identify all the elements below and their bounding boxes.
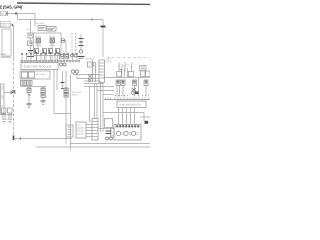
ignition wire — [10, 24, 14, 26]
mid bottom small connector — [66, 125, 73, 137]
wire A (battery feed) — [9, 13, 36, 15]
fuse F1 label — [0, 11, 8, 15]
junction tick x92 on wire B — [91, 19, 93, 21]
left attach box — [111, 128, 115, 136]
svg-text:IND LAMP: IND LAMP — [36, 73, 46, 76]
wire bus under indicators — [21, 86, 47, 88]
lower module box — [20, 71, 50, 79]
vertical to ECU — [89, 87, 91, 123]
bottom-left junction cluster — [1, 84, 5, 114]
long wire y77.5 to right edge — [103, 77, 150, 79]
tick on ignition wire — [11, 24, 13, 26]
connector circle pair 2 — [71, 70, 74, 73]
svg-text:NORMAL: NORMAL — [86, 58, 95, 61]
fusible link blob — [101, 26, 106, 28]
pin wires from ECU — [86, 125, 92, 137]
connector C9 (tall) — [99, 60, 105, 83]
junction tick bottom — [13, 136, 15, 141]
bottom long wires — [71, 143, 151, 145]
wire drop from A to B — [17, 14, 19, 20]
svg-text:SWITCH: SWITCH — [1, 25, 10, 28]
wire down to connector — [65, 41, 67, 55]
wire y128.5 — [98, 128, 114, 130]
wire corner mid-bottom — [54, 113, 71, 115]
harness dashed wire (left vertical) — [13, 58, 15, 138]
indicator connector boxes — [21, 81, 27, 86]
svg-text:No.4: No.4 — [1, 13, 6, 16]
drops below wire — [119, 113, 135, 125]
ground G2 — [41, 100, 46, 102]
noise capacitor chain — [80, 34, 82, 50]
wire corner x103 with fusible link — [102, 20, 104, 58]
wire vertical x54 — [53, 70, 55, 114]
ignition switch body box — [2, 29, 11, 56]
switch glyph row above controller — [21, 54, 77, 61]
svg-text:WHT/BLK: WHT/BLK — [36, 22, 46, 25]
wire under right box — [103, 112, 144, 114]
bottom-left component pair — [1, 108, 14, 123]
wire from relay box to node — [61, 40, 66, 42]
connector comb row (controller top) — [20, 60, 80, 62]
relay contact connectors row — [35, 49, 39, 54]
svg-text:GROUND: GROUND — [1, 56, 12, 59]
wires from connector pair to right — [73, 73, 99, 75]
ground G1 — [27, 103, 32, 105]
svg-text:NAVI): NAVI) — [72, 94, 78, 97]
wire bundle verticals — [94, 84, 96, 118]
connector circles under dashed wires — [71, 54, 74, 57]
small box right of C20 — [105, 119, 113, 128]
bottom ECU box — [76, 122, 86, 138]
controller U1 box — [21, 63, 58, 70]
lamp chain 2 — [42, 87, 44, 89]
ignition switch label — [0, 22, 10, 28]
right connector pairs below wire — [116, 80, 148, 86]
bottom right connector box — [114, 125, 141, 141]
bottom wire from dash line — [14, 138, 73, 140]
blob right — [145, 121, 149, 124]
connector circles right of controller — [60, 63, 63, 66]
wire B (main horizontal feed) — [18, 19, 104, 21]
wire vertical x70.5 — [70, 75, 72, 151]
right drop wires — [117, 78, 146, 97]
long wire y81 — [84, 80, 101, 82]
lamp chain 1 — [28, 87, 30, 89]
right switch cluster — [132, 88, 137, 92]
wires below relay box — [37, 56, 58, 61]
cluster left of connector C9 — [88, 60, 96, 82]
optional dashed wires — [71, 33, 73, 54]
svg-text:RELAY: RELAY — [35, 35, 42, 38]
wire y94.5 — [103, 94, 114, 96]
svg-text:E (SA5, GP4): E (SA5, GP4) — [0, 5, 23, 10]
svg-text:SUB CONTROLLER: SUB CONTROLLER — [24, 65, 52, 69]
capacitor drop x62.5 — [62, 71, 64, 82]
long wire y83.5 — [84, 83, 103, 85]
tick on bottom wire — [20, 137, 22, 139]
wire vertical x35 to relay box — [34, 14, 36, 27]
ground under capacitor — [78, 56, 85, 58]
dashed option wire top right — [107, 57, 150, 59]
relay assembly outer box — [34, 33, 62, 56]
svg-text:RELAY: RELAY — [49, 35, 56, 38]
pin number dots above comb — [115, 95, 149, 96]
junction tick on wire A — [15, 12, 17, 15]
ground under diode unit — [28, 50, 33, 52]
relay assembly label boxes — [38, 26, 46, 31]
drops from box to wire — [119, 108, 135, 114]
wire y90.5 — [97, 90, 114, 92]
svg-text:SUB CONTROLLER: SUB CONTROLLER — [119, 104, 141, 107]
dark cluster bottom — [106, 131, 112, 134]
right boxes above wire — [117, 71, 151, 77]
circles in box — [116, 131, 120, 135]
wire vertical x66 — [65, 71, 67, 144]
fuse F1 — [6, 13, 9, 15]
bottom connector C20 — [92, 119, 98, 141]
wire y86.5 — [84, 86, 114, 88]
glyph row pin dots — [21, 53, 77, 55]
svg-text:NAVI): NAVI) — [106, 60, 112, 63]
component chain node (diode unit) — [30, 20, 32, 34]
right connector comb — [104, 99, 150, 101]
harness wire (left vertical, solid top) — [13, 25, 15, 58]
wire vertical x57 — [56, 70, 58, 91]
svg-text:ECU: ECU — [77, 124, 82, 127]
connector blocks under relay — [60, 55, 64, 59]
right switch glyphs — [118, 62, 133, 77]
connector stack on x66 — [64, 88, 68, 93]
title rule — [17, 3, 150, 4]
sub controller box right — [117, 101, 146, 108]
relay internal text rows — [36, 45, 56, 47]
